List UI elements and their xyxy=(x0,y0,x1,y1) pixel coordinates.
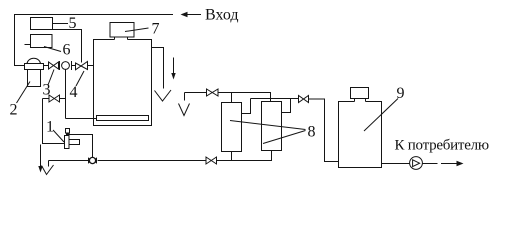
svg-text:7: 7 xyxy=(152,21,160,38)
backwash funnel V xyxy=(179,104,190,116)
tank (softener) shell xyxy=(94,40,152,126)
wire: top line over columns, drop into column B xyxy=(218,93,271,102)
wire: control line box5 to valve 4 xyxy=(53,30,82,63)
solenoid valve 1: head xyxy=(66,129,70,134)
wire: left drain drop to solenoid valve 1 xyxy=(43,99,65,144)
wire: bottom line to column B riser xyxy=(217,151,272,161)
filter 2: flange bar xyxy=(25,64,44,70)
filter 2: dome xyxy=(27,58,41,63)
drain valve bowtie xyxy=(49,95,60,102)
valve 4 bowtie xyxy=(76,62,88,70)
outlet arrow shaft xyxy=(441,163,458,165)
overflow arrow shaft xyxy=(173,58,175,76)
column 8a outlet pocket xyxy=(242,99,251,114)
overflow arrow head xyxy=(171,73,175,80)
wire: line into tank bottom distributor xyxy=(66,118,97,120)
leader to 2 xyxy=(17,82,31,104)
wire: bottom main line left of pump xyxy=(49,160,89,162)
pump 2 triangle xyxy=(413,160,420,167)
wire: drain valve line right part xyxy=(60,98,66,100)
drain arrow shaft xyxy=(40,145,42,169)
svg-text:8: 8 xyxy=(308,124,316,141)
outlet arrow head xyxy=(457,161,464,167)
bottom distributor inside tank xyxy=(97,116,149,121)
overflow funnel V xyxy=(155,90,172,101)
tank neck stubs xyxy=(115,37,128,40)
valve 5 bowtie xyxy=(206,157,217,164)
controller box 6 xyxy=(31,35,53,48)
leader to 6 xyxy=(44,47,61,52)
wire: bottom line pump to valve 5 xyxy=(98,160,206,162)
tank 9 hatch box xyxy=(351,88,369,99)
leader to 9 xyxy=(364,99,398,132)
leader to 1 xyxy=(53,130,64,142)
drain arrow head xyxy=(38,166,42,173)
wire: backwash top line xyxy=(185,92,207,94)
tank 9 shell xyxy=(339,102,382,168)
column 8a xyxy=(222,103,242,152)
flange bar left of circle xyxy=(59,61,61,70)
pump 2 circle xyxy=(410,157,423,170)
wire: column A inlet drop xyxy=(231,93,233,103)
wire: after pump 2 xyxy=(422,163,437,165)
controller box 5 xyxy=(31,18,53,30)
leader to 5 xyxy=(53,23,69,25)
valve 7 bowtie xyxy=(299,96,309,103)
svg-text:6: 6 xyxy=(63,42,71,59)
leader to 8 lower xyxy=(263,131,306,144)
leader to 4 xyxy=(76,71,84,86)
wire: input top line and left frame down to filter inlet xyxy=(15,15,174,66)
wire: outlet line to valve 7 xyxy=(251,98,299,100)
solenoid valve 1: stem xyxy=(67,133,70,136)
wire: drain valve line left part xyxy=(43,98,50,100)
solenoid valve 1: side box xyxy=(69,140,80,145)
tank 9 neck stubs xyxy=(355,99,366,102)
pump 1 triangles xyxy=(88,157,97,164)
wire: from valve 7 down to tank 9 inlet xyxy=(309,99,339,162)
svg-text:4: 4 xyxy=(70,84,78,101)
solenoid valve 1: body xyxy=(65,136,70,149)
leader to 8 upper xyxy=(230,121,306,130)
wire: pipe filter to valve 3 xyxy=(44,65,49,67)
wire: pipe segment to valve 4 xyxy=(72,65,76,67)
column 8b outlet pocket xyxy=(282,99,291,113)
funnel V xyxy=(42,165,54,175)
float box 7 xyxy=(110,23,134,38)
svg-text:2: 2 xyxy=(10,102,18,119)
leader to 3 xyxy=(48,70,54,85)
funnel stub xyxy=(48,161,50,167)
three-way valve circle xyxy=(62,62,70,70)
backwash funnel stub xyxy=(184,93,186,101)
wire: pipe into tank xyxy=(88,65,94,67)
overflow pipe xyxy=(152,48,164,89)
inlet arrow head xyxy=(181,12,188,18)
wire: drop from circle to drain junction and on to distributor level xyxy=(65,69,67,118)
leader to 7 xyxy=(125,28,149,32)
column 8b xyxy=(262,102,282,151)
svg-text:Вход: Вход xyxy=(205,7,239,24)
wire: stub into box 6 xyxy=(25,44,31,46)
wire: stem line across to pump drop xyxy=(70,135,93,158)
wire: outlet to pump 2 xyxy=(382,163,410,165)
svg-text:1: 1 xyxy=(46,119,54,136)
valve 3 bowtie xyxy=(49,62,59,69)
valve 6 bowtie xyxy=(207,89,219,96)
inlet arrow shaft xyxy=(186,14,201,16)
pump 1 circle xyxy=(89,157,95,163)
wire: column A bottom drop xyxy=(231,152,233,161)
flange bar right of circle xyxy=(71,61,73,70)
filter 2: body xyxy=(28,70,41,87)
svg-text:К потребителю: К потребителю xyxy=(395,138,489,154)
